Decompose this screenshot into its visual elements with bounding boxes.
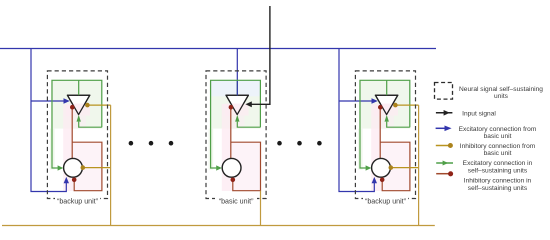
svg-text:self–sustaining units: self–sustaining units (468, 167, 528, 174)
wire: unit1 olive riser to bus (110, 105, 112, 225)
arrowhead: unit1 excitatory from basic into circle (64, 177, 69, 183)
svg-text:Inhibitory connection in: Inhibitory connection in (464, 178, 532, 185)
wire: unit3 blue drop from input bus (339, 49, 374, 192)
wire: unit1 green loop (52, 80, 102, 168)
svg-text:basic unit: basic unit (484, 150, 512, 157)
arrowhead: unit1 excitatory from basic into triangle (64, 98, 70, 104)
wire: unit1 olive stub to circle (83, 167, 111, 169)
tint: unit2 pink below triangle tip (231, 116, 245, 129)
arrowhead: unit3 green into triangle tip (385, 115, 389, 122)
wire: unit2 olive output riser to bus (260, 191, 262, 226)
svg-text:Input signal: Input signal (462, 110, 496, 117)
ellipsis dots between unit1 and unit2 (129, 141, 134, 146)
input signal wire (black vertical into unit2) (251, 6, 270, 104)
legend icon: input signal black arrow (436, 112, 453, 114)
wire: unit3 red circle-to-triangle inhibitory (379, 109, 381, 159)
svg-text:Neural signal self–sustaining: Neural signal self–sustaining (459, 86, 543, 93)
tint: unit1 pink below triangle tip (72, 116, 86, 129)
svg-text:“backup unit”: “backup unit” (365, 197, 407, 205)
label background unit1 (55, 196, 100, 205)
tint: unit3 pink over inhibitory self-loop (380, 142, 410, 191)
tint: unit3 green band along left green wire (358, 129, 363, 170)
tint: unit2 light blue band along input wire (211, 80, 260, 96)
tint: unit1 excitatory-loop light green area (51, 80, 103, 129)
tint: unit2 pink over inhibitory self-loop (231, 142, 261, 191)
tint: unit1 green band along left green wire (50, 129, 55, 170)
wire: unit1 blue branch into triangle (31, 100, 64, 102)
synapse dot: unit1 olive on circle (81, 165, 86, 170)
wire: unit3 olive stub to circle (391, 167, 419, 169)
svg-text:Excitatory connection in: Excitatory connection in (463, 160, 533, 167)
label background unit3 (363, 196, 408, 205)
tint: unit2 pink over triangle bottom (225, 104, 249, 116)
wire: unit1 green loop top stub from triangle (78, 80, 80, 95)
tint: unit3 excitatory-loop light green area (359, 80, 411, 129)
wire: unit3 green feedback to triangle tip (387, 122, 410, 128)
svg-text:“backup unit”: “backup unit” (57, 197, 99, 205)
wire: unit2 green feedback to triangle tip (237, 122, 260, 128)
synapse dot: unit2 red on circle (231, 178, 236, 183)
input signal arrowhead into unit2 triangle (245, 101, 251, 107)
synapse dot: unit3 red on triangle (378, 105, 383, 110)
wire: unit3 red self-inhibition loop (380, 142, 410, 191)
arrowhead: unit2 green into triangle tip (235, 115, 239, 122)
wire: unit1 blue drop from input bus (31, 49, 66, 192)
dashed border of unit1 (47, 71, 107, 199)
re-stroke triangle outline unit3 (375, 95, 397, 114)
synapse dot: unit1 red on circle (72, 178, 77, 183)
excitatory neuron (triangle) of unit3 (375, 95, 397, 114)
legend icon: dashed units box (435, 83, 453, 100)
legend icon: excitatory in self-sustaining green arrow (436, 162, 453, 164)
legend icon: excitatory from basic blue arrow (436, 127, 446, 129)
synapse dot: unit3 olive on triangle (393, 103, 398, 108)
synapse dot: unit1 olive on triangle (85, 103, 90, 108)
wire: unit3 olive riser to bus (418, 105, 420, 225)
svg-text:units: units (494, 93, 509, 100)
arrowhead: unit3 excitatory from basic into triangle (372, 98, 378, 104)
tint: unit2 green band along left green wire (209, 129, 214, 170)
tint: unit1 pink over inhibitory self-loop (72, 142, 102, 191)
wire: unit3 olive stub to triangle (395, 104, 418, 106)
wire: unit2 red circle-to-triangle inhibitory (230, 109, 232, 159)
tint: unit1 pink over triangle bottom (66, 104, 90, 116)
svg-text:self–sustaining units: self–sustaining units (468, 185, 528, 192)
legend icon: inhibitory in self-sustaining red line-dot (436, 173, 448, 175)
synapse dot: unit2 red on triangle (229, 105, 234, 110)
wire: unit2 green loop (211, 80, 261, 168)
legend icon: inhibitory from basic olive line-dot (436, 145, 449, 147)
tint: unit3 pink below triangle tip (380, 116, 394, 129)
ellipsis dots between unit2 and unit3 (277, 141, 282, 146)
inhibitory neuron (circle) of unit1 (64, 158, 83, 177)
dashed border of unit2 (206, 71, 266, 199)
wire: unit2 red self-inhibition loop (231, 142, 261, 191)
arrowhead: unit2 green into circle (216, 165, 222, 170)
excitatory neuron (triangle) of unit1 (67, 95, 89, 114)
arrowhead: unit3 excitatory from basic into circle (372, 177, 377, 183)
wire: unit2 green loop top stub from triangle (236, 80, 238, 95)
synapse dot: unit3 olive on circle (389, 165, 394, 170)
wire: unit3 blue branch into triangle (339, 100, 372, 102)
tint: unit3 pink over triangle bottom (374, 104, 398, 116)
basic-unit output bus wire (bottom olive horizontal) (2, 225, 435, 227)
arrowhead: unit3 green into circle (366, 165, 372, 170)
tint: unit3 pink band along inhibitory wire (371, 104, 381, 191)
tint: unit2 excitatory-loop light green area (210, 80, 262, 129)
inhibitory neuron (circle) of unit2 (222, 158, 241, 177)
tint: unit1 pink band along inhibitory wire (63, 104, 73, 191)
svg-text:Excitatory connection from: Excitatory connection from (459, 126, 537, 133)
wire: unit1 red circle-to-triangle inhibitory (71, 109, 73, 159)
inhibitory neuron (circle) of unit3 (372, 158, 391, 177)
excitatory neuron (triangle) of unit2 (226, 95, 248, 114)
arrowhead: unit1 green into circle (58, 165, 64, 170)
svg-text:“basic unit”: “basic unit” (219, 197, 254, 205)
svg-text:Inhibitory connection from: Inhibitory connection from (460, 143, 536, 150)
wire: unit3 green loop top stub from triangle (386, 80, 388, 95)
arrowhead: unit1 green into triangle tip (77, 115, 81, 122)
re-stroke triangle outline unit2 (226, 95, 248, 114)
synapse dot: unit1 red on triangle (70, 105, 75, 110)
wire: unit1 green feedback to triangle tip (79, 122, 102, 128)
tint: unit2 pink band along inhibitory wire (222, 104, 232, 191)
wire: unit1 red self-inhibition loop (72, 142, 102, 191)
synapse dot: unit3 red on circle (380, 178, 385, 183)
label background unit2 (215, 196, 257, 205)
input bus wire (blue horizontal) (0, 48, 436, 50)
wire: unit1 olive stub to triangle (87, 104, 110, 106)
wire: unit3 green loop (360, 80, 410, 168)
dashed border of unit3 (355, 71, 415, 199)
re-stroke triangle outline unit1 (67, 95, 89, 114)
svg-text:basic unit: basic unit (484, 133, 512, 140)
wire: unit2 blue input from bus into triangle top (236, 49, 238, 96)
